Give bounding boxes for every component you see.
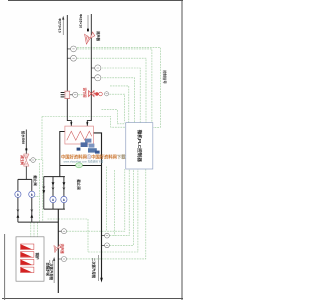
center group branch a <box>52 177 54 210</box>
control valve center group a <box>50 196 56 202</box>
hollow tick left group b <box>31 209 33 212</box>
instrument PI1 <box>71 46 77 52</box>
positioner circle on P2 valve <box>105 92 109 96</box>
bottom bus line 2 <box>110 169 130 236</box>
down arrow center branch a <box>52 182 55 186</box>
flow label line bottom-left (arrow up) <box>53 257 55 283</box>
signal line A into controller left <box>102 110 126 124</box>
instrument bottom-right 2 <box>105 243 110 248</box>
controller box <box>126 123 153 169</box>
bottom bus line 3 <box>110 169 134 245</box>
inlet arrow into box right nozzle <box>86 122 88 125</box>
svg-text:截止阀: 截止阀 <box>76 179 81 190</box>
bottom bus line 4 <box>88 169 138 252</box>
instrument at PRV <box>31 158 36 163</box>
hollow tick left group a <box>17 209 19 212</box>
PRV pressure reducing valve (vertical bowtie) <box>24 154 29 166</box>
hollow tick center branch a <box>52 187 54 190</box>
svg-text:调节阀: 调节阀 <box>83 88 88 99</box>
main outlet arrowhead down <box>100 278 103 283</box>
cross pipe with tag <box>60 165 102 167</box>
inlet arrow into box left nozzle <box>70 122 72 125</box>
pipe P1 primary steam left <box>67 15 71 126</box>
signal line outer to controller right edge <box>77 47 160 127</box>
watermark logo blocks <box>77 139 100 154</box>
down arrow bypass branch <box>42 190 45 194</box>
flow label line bottom-right <box>97 255 99 281</box>
page border bottom <box>2 298 183 300</box>
left valve group top header <box>18 178 32 180</box>
svg-text:减压阀: 减压阀 <box>20 154 25 166</box>
pipe from box right side down to bottom <box>93 133 101 279</box>
signal line along y219 to x88 down <box>48 219 89 252</box>
instrument at motor valve <box>73 92 78 97</box>
svg-text:www.zhaoziliao.com 免费资料下载: www.zhaoziliao.com 免费资料下载 <box>64 160 104 164</box>
flow label line P2 with down mark <box>87 15 89 31</box>
control valve center group b <box>61 196 67 202</box>
vent silencer triangle bottom <box>54 245 61 253</box>
instrument stubs <box>29 49 105 259</box>
svg-text:控制信号: 控制信号 <box>162 70 167 84</box>
bottom bus line 1 <box>67 169 125 231</box>
desuperheater box <box>65 126 94 144</box>
signal line from TI1 to controller <box>77 58 146 122</box>
bottom bus line 5 <box>67 169 146 259</box>
relief valve on P2 (diagonal bowtie, hatched) <box>85 32 95 44</box>
riser 2 to bottom bus <box>113 170 115 236</box>
pipe P2 primary steam right <box>87 14 91 126</box>
center outlet pipe down <box>57 209 59 293</box>
instrument TI1 <box>71 55 77 61</box>
page border top <box>8 0 183 2</box>
handwheel tick on PRV branch <box>25 148 27 150</box>
instrument TI2 <box>95 75 101 81</box>
svg-text:Φ426×10: Φ426×10 <box>79 14 83 28</box>
control valve left group b <box>29 191 35 197</box>
up arrow left group b <box>30 214 33 218</box>
svg-text:给水Φ89: 给水Φ89 <box>21 131 26 144</box>
burner flag 4 <box>21 267 34 273</box>
svg-text:Φ273×10: Φ273×10 <box>57 18 61 32</box>
center group branch b <box>63 177 65 210</box>
svg-text:消声器: 消声器 <box>96 31 101 42</box>
control valve on P2 (red bowtie + actuator) <box>89 91 103 97</box>
center valve group top header <box>44 176 65 178</box>
signal line valve group vertical 1 <box>34 163 40 222</box>
instrument PI2 <box>95 65 101 71</box>
center group bypass branch <box>43 177 45 210</box>
boiler box <box>16 237 44 281</box>
left group bottom header to center line <box>18 221 58 223</box>
drawing frame left edge <box>4 234 6 300</box>
signal line from PI2 to controller <box>102 68 141 123</box>
signal branch to PRV instrument <box>35 117 42 160</box>
svg-text:中国好资料网①中国好资料网下载: 中国好资料网①中国好资料网下载 <box>61 153 126 160</box>
svg-text:截止阀: 截止阀 <box>33 175 38 186</box>
burner flag 1 <box>21 244 34 250</box>
center group bottom header <box>44 208 65 210</box>
svg-text:消声器: 消声器 <box>60 244 65 255</box>
svg-text:锅炉: 锅炉 <box>35 253 40 260</box>
hollow tick bypass branch <box>43 186 45 189</box>
page border right <box>181 0 183 300</box>
signal line from TI2 to controller <box>102 78 135 123</box>
hollow tick center branch b <box>63 187 65 190</box>
instrument glyph marks <box>32 49 108 259</box>
riser from cross pipe to bottom bus <box>106 167 108 232</box>
PRV branch pipe <box>25 130 27 180</box>
signal line from valve positioner to controller <box>78 94 125 122</box>
signal line from PI1 to controller <box>77 49 152 123</box>
svg-text:二次蒸汽母管: 二次蒸汽母管 <box>49 260 54 281</box>
pipe from box left side down <box>60 132 65 177</box>
signal line spare to controller <box>110 86 129 123</box>
signal line valve group vertical 2 <box>42 160 44 223</box>
svg-text:微机PLC控制器: 微机PLC控制器 <box>136 129 143 163</box>
desuperheater zigzag coil <box>67 131 92 140</box>
left group branch a <box>17 179 19 222</box>
left group branch b <box>31 179 33 222</box>
signal lines into boiler box <box>31 222 38 237</box>
instrument bottom-left 2 <box>62 257 67 262</box>
flow label line P1 <box>62 16 64 35</box>
motor valve on P1 <box>61 91 71 98</box>
control valve left group a <box>15 191 21 197</box>
instrument bottom-left 1 <box>62 229 67 234</box>
signal line B long into controller left <box>42 117 126 128</box>
svg-text:二次蒸汽母管: 二次蒸汽母管 <box>92 258 97 279</box>
burner flag 2 <box>21 252 34 258</box>
instrument bottom-right 1 <box>105 233 110 238</box>
up arrow left group a <box>17 214 20 218</box>
burner flag 3 <box>21 259 34 265</box>
svg-text:◦◦: ◦◦ <box>78 164 80 167</box>
down arrow center branch b <box>63 182 66 186</box>
